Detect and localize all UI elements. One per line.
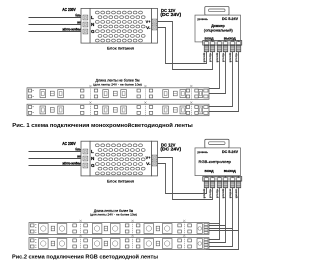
svg-text:G: G — [91, 29, 95, 34]
svg-text:RGB-контроллер: RGB-контроллер — [199, 160, 231, 164]
svg-text:Рис.2 схема подключения RGB св: Рис.2 схема подключения RGB светодиодной… — [12, 253, 158, 260]
svg-text:V-: V- — [225, 41, 227, 43]
svg-text:жёлто-зелёный: жёлто-зелёный — [62, 162, 83, 166]
svg-text:жёлто-зелёный: жёлто-зелёный — [62, 28, 83, 32]
svg-text:AC 230V: AC 230V — [62, 7, 76, 12]
svg-text:вход: вход — [205, 36, 214, 40]
svg-text:красный: красный — [203, 53, 206, 63]
svg-text:уровень: уровень — [197, 150, 208, 154]
svg-text:уровень: уровень — [197, 17, 208, 21]
svg-text:V-: V- — [238, 41, 240, 43]
svg-text:V-: V- — [212, 177, 214, 179]
svg-text:(для ленты 24V - не более 10м): (для ленты 24V - не более 10м) — [93, 82, 142, 86]
svg-text:зелёный: зелёный — [229, 189, 232, 199]
svg-text:выход: выход — [224, 169, 236, 173]
svg-text:DC 5-24V: DC 5-24V — [222, 17, 239, 21]
svg-text:синий: синий — [235, 189, 238, 199]
svg-text:V-: V- — [212, 41, 214, 43]
svg-text:Блок питания: Блок питания — [107, 47, 134, 51]
svg-text:чёрный: чёрный — [216, 189, 219, 199]
svg-text:L: L — [91, 15, 94, 20]
svg-text:(для ленты 24V - не более 10м): (для ленты 24V - не более 10м) — [90, 213, 137, 217]
svg-text:AC 230V: AC 230V — [62, 141, 76, 146]
svg-text:чёрный: чёрный — [222, 53, 225, 63]
svg-text:вход: вход — [205, 169, 214, 173]
svg-text:красный: красный — [216, 53, 219, 63]
svg-text:чёрный: чёрный — [209, 189, 212, 199]
svg-text:(опциональный): (опциональный) — [204, 28, 233, 32]
svg-text:Рис. 1 схема подключения монох: Рис. 1 схема подключения монохромнойсвет… — [12, 122, 193, 129]
svg-text:выход: выход — [224, 36, 236, 40]
svg-text:L: L — [91, 149, 94, 154]
svg-text:DC 5-24V: DC 5-24V — [222, 150, 239, 154]
svg-text:V+: V+ — [146, 156, 151, 160]
svg-text:чёрный: чёрный — [235, 53, 238, 63]
svg-text:красный: красный — [222, 189, 225, 199]
svg-text:(DC 24V): (DC 24V) — [160, 146, 181, 151]
svg-text:(DC 24V): (DC 24V) — [160, 12, 181, 17]
svg-text:чёрный: чёрный — [209, 53, 212, 63]
svg-text:Блок питания: Блок питания — [107, 179, 134, 183]
svg-text:V+: V+ — [146, 20, 151, 24]
svg-text:G: G — [91, 163, 95, 168]
svg-text:красный: красный — [229, 53, 232, 63]
